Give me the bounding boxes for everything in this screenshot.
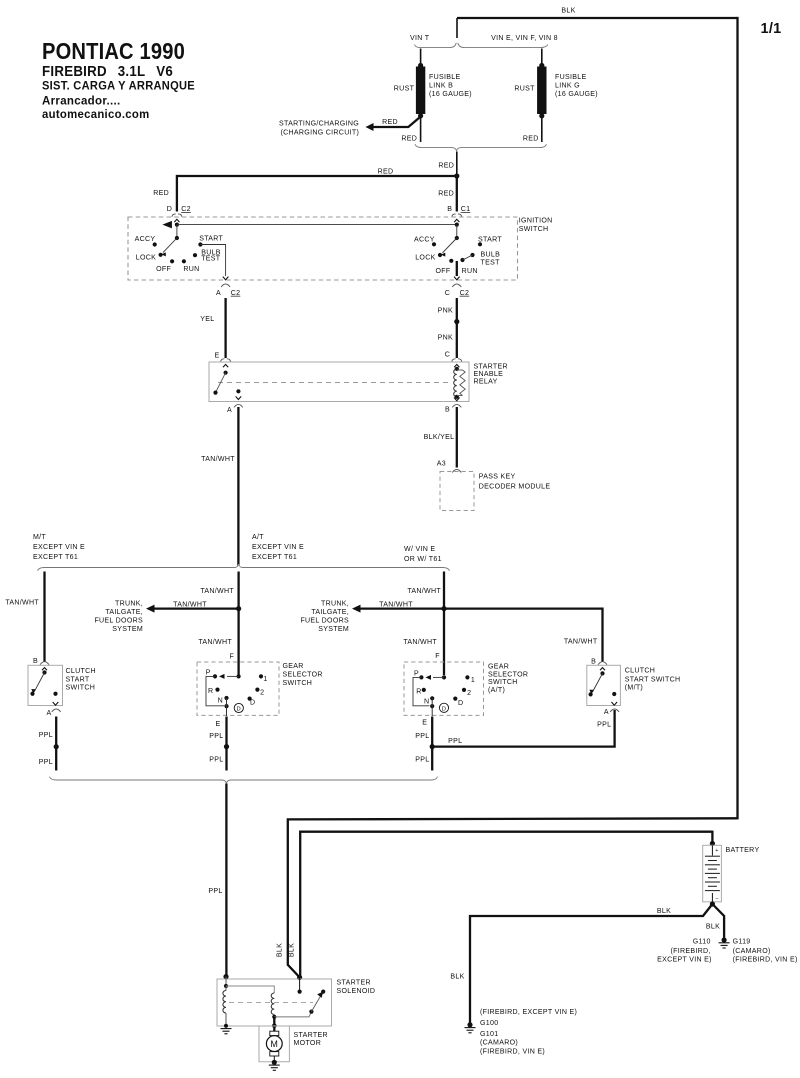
node left ACCY <box>153 242 157 246</box>
node G100 ground <box>467 1022 472 1027</box>
svg-text:(M/T): (M/T) <box>625 685 643 692</box>
wire BLK inside solenoid <box>299 978 301 992</box>
wire solenoid coil1 to ground <box>225 1013 227 1026</box>
svg-text:2: 2 <box>467 690 471 697</box>
wire to trunk system middle <box>150 607 239 609</box>
wire PNK <box>456 298 458 358</box>
node bottom of fusible link G <box>539 113 544 118</box>
node right gear common <box>442 675 446 679</box>
svg-text:GEAR: GEAR <box>488 664 509 671</box>
svg-text:LOCK: LOCK <box>415 254 435 261</box>
wire left START output <box>200 245 225 277</box>
svg-text:F: F <box>229 654 234 661</box>
connector mark at A C2 exit <box>221 284 230 287</box>
svg-text:RUN: RUN <box>183 266 199 273</box>
svg-text:SOLENOID: SOLENOID <box>337 988 376 995</box>
svg-text:RED: RED <box>153 190 169 197</box>
solenoid lever <box>311 997 320 1012</box>
svg-text:START: START <box>199 235 223 242</box>
svg-text:TAN/WHT: TAN/WHT <box>173 601 207 608</box>
ground symbol motor <box>269 1064 280 1066</box>
node solenoid pivot <box>309 1010 313 1014</box>
svg-text:FUEL DOORS: FUEL DOORS <box>300 618 349 625</box>
wire ignition bus to right switch <box>177 224 457 226</box>
svg-text:RED: RED <box>438 190 454 197</box>
starter solenoid box <box>217 979 332 1026</box>
svg-text:PPL: PPL <box>39 732 53 739</box>
gear selector switch dashed box middle <box>197 662 279 715</box>
svg-text:EXCEPT T61: EXCEPT T61 <box>33 554 78 561</box>
svg-text:TAN/WHT: TAN/WHT <box>198 639 232 646</box>
circled D right <box>439 703 448 712</box>
right clutch lever <box>592 673 602 692</box>
svg-text:Arrancador....: Arrancador.... <box>42 94 121 107</box>
svg-text:TRUNK,: TRUNK, <box>321 601 349 608</box>
wire solenoid pull-in feed <box>225 977 227 986</box>
svg-text:automecanico.com: automecanico.com <box>42 108 150 121</box>
svg-text:(16 GAUGE): (16 GAUGE) <box>555 91 598 98</box>
ground symbol G119 <box>719 942 730 944</box>
svg-text:SWITCH: SWITCH <box>519 226 549 233</box>
wire to charging circuit <box>373 117 420 127</box>
svg-text:RED: RED <box>438 162 454 169</box>
svg-text:FUSIBLE: FUSIBLE <box>555 74 586 81</box>
svg-text:(CHARGING CIRCUIT): (CHARGING CIRCUIT) <box>280 129 359 136</box>
svg-text:D: D <box>458 700 463 707</box>
svg-text:B: B <box>33 658 38 665</box>
wire RED horizontal <box>177 175 457 177</box>
wire right junction to clutch M/T <box>444 609 603 662</box>
svg-text:N: N <box>424 699 429 706</box>
svg-text:G101: G101 <box>480 1031 498 1038</box>
svg-text:FUSIBLE: FUSIBLE <box>429 74 460 81</box>
ground symbol solenoid <box>221 1028 232 1030</box>
svg-text:TAILGATE,: TAILGATE, <box>105 609 143 616</box>
wire BLK/YEL <box>456 407 458 468</box>
right ignition lever <box>443 238 457 253</box>
svg-text:TEST: TEST <box>481 260 501 267</box>
svg-text:BATTERY: BATTERY <box>726 847 760 854</box>
wire solenoid contact link <box>274 1012 311 1017</box>
svg-text:OFF: OFF <box>156 266 171 273</box>
svg-text:BLK: BLK <box>657 908 671 915</box>
node middle 1 <box>259 674 263 678</box>
fusible link G body <box>538 67 546 114</box>
node solenoid coil2 bottom <box>272 1015 276 1019</box>
svg-text:B: B <box>591 658 596 665</box>
svg-text:STARTING/CHARGING: STARTING/CHARGING <box>279 121 359 128</box>
svg-text:RED: RED <box>523 136 539 143</box>
svg-text:M/T: M/T <box>33 534 46 541</box>
svg-text:−: − <box>715 896 719 902</box>
svg-text:D: D <box>442 706 447 712</box>
svg-text:TAN/WHT: TAN/WHT <box>564 639 598 646</box>
node right clutch top <box>600 671 604 675</box>
node left OFF <box>170 259 174 263</box>
wire below fusible link B <box>420 117 422 142</box>
right gear bracket <box>413 677 430 705</box>
wire RED down to ignition D <box>176 175 178 212</box>
svg-text:G110: G110 <box>693 939 711 946</box>
battery box <box>703 845 722 902</box>
right clutch start switch box <box>587 665 621 705</box>
svg-text:SWITCH: SWITCH <box>66 685 96 692</box>
svg-text:P: P <box>414 670 419 677</box>
left clutch lever <box>34 673 44 692</box>
arrowhead relay output <box>236 396 242 399</box>
svg-text:RUST: RUST <box>514 85 535 92</box>
svg-text:RED: RED <box>382 119 398 126</box>
node left LOCK <box>159 253 163 257</box>
wire left pivot link <box>176 225 178 238</box>
starter enable relay box <box>209 362 469 402</box>
svg-text:RELAY: RELAY <box>474 379 498 386</box>
svg-text:1: 1 <box>471 677 475 684</box>
svg-text:PONTIAC 1990: PONTIAC 1990 <box>42 38 185 64</box>
svg-text:E: E <box>214 353 219 360</box>
node middle R <box>215 688 219 692</box>
svg-text:FIREBIRD 3.1L V6: FIREBIRD 3.1L V6 <box>42 63 173 80</box>
node PNK splice <box>454 319 459 324</box>
ignition switch dashed box <box>128 217 518 280</box>
node solenoid coil1 top <box>224 984 228 988</box>
svg-text:F: F <box>435 653 440 660</box>
svg-text:TAN/WHT: TAN/WHT <box>201 456 235 463</box>
distribution brace <box>38 564 450 571</box>
svg-text:STARTER: STARTER <box>294 1032 328 1039</box>
wire right ignition output <box>456 261 458 276</box>
svg-text:DECODER MODULE: DECODER MODULE <box>479 484 551 491</box>
wire solenoid to motor <box>273 1017 275 1031</box>
right RUN-BULB jumper <box>463 255 473 260</box>
node solenoid BLK contact <box>298 990 302 994</box>
node G119 ground <box>722 937 727 942</box>
svg-text:PNK: PNK <box>438 307 453 314</box>
wire brace to RED junction <box>456 152 458 177</box>
svg-text:FUEL DOORS: FUEL DOORS <box>94 618 143 625</box>
node right OFF <box>449 259 453 263</box>
svg-text:G100: G100 <box>480 1020 498 1027</box>
svg-text:C2: C2 <box>460 290 470 297</box>
brace merging RED wires <box>415 144 547 151</box>
svg-text:MOTOR: MOTOR <box>294 1040 322 1047</box>
node right clutch output <box>612 692 616 696</box>
node right clutch lower <box>589 692 593 696</box>
svg-text:2: 2 <box>260 690 264 697</box>
brace under VIN E VIN F VIN 8 <box>458 43 548 48</box>
svg-text:BLK: BLK <box>276 943 283 957</box>
wire A/T branch drop <box>237 572 239 676</box>
arrowhead left output down <box>223 277 229 280</box>
svg-text:(FIREBIRD,: (FIREBIRD, <box>670 948 710 955</box>
wire left PPL <box>55 717 57 771</box>
pass key decoder module dashed box <box>440 472 474 511</box>
left clutch start switch box <box>28 665 63 705</box>
svg-text:LINK G: LINK G <box>555 83 580 90</box>
connector mark right clutch A <box>610 709 619 712</box>
node motor ground <box>272 1060 277 1065</box>
wire below fusible link G <box>541 117 543 142</box>
connector mark left clutch B <box>40 662 49 665</box>
svg-text:C1: C1 <box>461 206 471 213</box>
svg-text:IGNITION: IGNITION <box>519 218 553 225</box>
svg-text:START: START <box>478 236 502 243</box>
arrowhead relay coil exit <box>454 398 460 401</box>
svg-text:PPL: PPL <box>448 738 462 745</box>
svg-text:A: A <box>216 290 221 297</box>
svg-text:SWITCH: SWITCH <box>283 680 313 687</box>
node solenoid coil1 bottom <box>224 1024 228 1028</box>
svg-text:SWITCH: SWITCH <box>488 679 518 686</box>
svg-text:PPL: PPL <box>597 722 611 729</box>
svg-text:BULB: BULB <box>481 251 501 258</box>
svg-text:PPL: PPL <box>209 757 223 764</box>
wire YEL <box>224 298 226 358</box>
node solenoid contact <box>321 990 325 994</box>
svg-text:(A/T): (A/T) <box>488 687 505 694</box>
node right START <box>478 242 482 246</box>
node relay switch common <box>224 371 228 375</box>
motor circle <box>266 1036 282 1052</box>
connector mark right clutch B <box>598 662 607 665</box>
svg-text:R: R <box>416 688 421 695</box>
svg-text:TAN/WHT: TAN/WHT <box>5 599 39 606</box>
svg-text:BLK: BLK <box>289 943 296 957</box>
wire BLK from top right <box>288 818 738 977</box>
svg-text:SELECTOR: SELECTOR <box>488 671 528 678</box>
svg-text:RED: RED <box>401 136 417 143</box>
wire BLK battery to G119 <box>712 904 724 938</box>
svg-text:1/1: 1/1 <box>760 21 781 37</box>
wire middle gear output inside <box>226 698 228 716</box>
node relay output contact <box>236 389 240 393</box>
connector mark at B C1 <box>452 214 456 217</box>
svg-text:CLUTCH: CLUTCH <box>66 668 96 675</box>
svg-text:PNK: PNK <box>438 335 453 342</box>
node left ignition feed <box>175 223 179 227</box>
svg-text:YEL: YEL <box>200 316 214 323</box>
motor terminal top <box>270 1031 279 1035</box>
wire RED down to ignition B <box>456 176 458 212</box>
wire to fusible link G <box>541 49 543 66</box>
node right BULB TEST <box>470 253 474 257</box>
node top of fusible link G <box>539 63 544 68</box>
svg-text:(FIREBIRD, VIN E): (FIREBIRD, VIN E) <box>480 1049 545 1056</box>
svg-text:RUST: RUST <box>394 85 415 92</box>
svg-text:BLK: BLK <box>450 974 464 981</box>
svg-text:(FIREBIRD, VIN E): (FIREBIRD, VIN E) <box>733 957 798 964</box>
connector mark at relay A exit <box>234 404 243 407</box>
svg-text:TAILGATE,: TAILGATE, <box>311 609 349 616</box>
svg-text:RED: RED <box>378 168 394 175</box>
svg-text:CLUTCH: CLUTCH <box>625 668 655 675</box>
node battery positive <box>710 841 715 846</box>
node RED junction <box>454 173 459 178</box>
arrowhead to charging circuit <box>366 123 374 131</box>
wire TAN/WHT main drop <box>237 407 239 566</box>
connector mark at A3 <box>452 470 461 473</box>
svg-text:BLK: BLK <box>561 8 575 15</box>
svg-text:W/ VIN E: W/ VIN E <box>404 546 435 553</box>
node left BULB TEST <box>193 253 197 257</box>
battery cells <box>711 845 713 855</box>
fusible link B body <box>416 67 424 114</box>
node middle gear common <box>237 674 241 678</box>
node top of fusible link B <box>418 63 423 68</box>
arrowhead into right clutch <box>600 668 605 671</box>
node right PPL splice <box>430 744 435 749</box>
wire W/VIN E branch drop <box>443 572 445 676</box>
wire BLK stub down to VIN braces <box>456 18 458 38</box>
svg-text:TAN/WHT: TAN/WHT <box>407 588 441 595</box>
node middle P <box>213 674 217 678</box>
svg-text:A: A <box>46 710 51 717</box>
svg-text:C: C <box>445 352 450 359</box>
arrowhead right clutch out <box>611 702 617 705</box>
relay dashed centerline <box>218 382 452 384</box>
node solenoid output <box>272 1024 277 1029</box>
svg-text:ACCY: ACCY <box>135 236 156 243</box>
node right P <box>419 675 423 679</box>
arrowhead trunk right <box>352 605 361 613</box>
wire right pivot link <box>456 225 458 238</box>
arrowhead ignition bus left <box>162 221 172 229</box>
wire BLK battery to solenoid <box>300 832 712 976</box>
node battery negative <box>710 901 715 906</box>
gear selector switch dashed box right <box>404 662 484 715</box>
svg-text:TAN/WHT: TAN/WHT <box>403 639 437 646</box>
svg-text:A3: A3 <box>437 461 446 468</box>
svg-text:START: START <box>66 676 90 683</box>
node right R <box>422 688 426 692</box>
node middle N <box>224 696 228 700</box>
node left RUN <box>182 259 186 263</box>
arrowhead left clutch out <box>53 702 59 705</box>
svg-text:(CAMARO): (CAMARO) <box>480 1040 518 1047</box>
svg-text:(CAMARO): (CAMARO) <box>733 948 771 955</box>
svg-text:PASS KEY: PASS KEY <box>479 473 516 480</box>
svg-text:STARTER: STARTER <box>474 363 508 370</box>
wire motor to ground <box>273 1056 275 1062</box>
svg-text:PPL: PPL <box>208 888 222 895</box>
svg-text:SELECTOR: SELECTOR <box>283 672 323 679</box>
svg-text:BLK/YEL: BLK/YEL <box>424 434 455 441</box>
node right 2 <box>462 688 466 692</box>
svg-text:(FIREBIRD, EXCEPT VIN E): (FIREBIRD, EXCEPT VIN E) <box>480 1009 577 1016</box>
svg-text:ENABLE: ENABLE <box>474 371 504 378</box>
node left clutch top <box>42 670 46 674</box>
svg-text:OFF: OFF <box>436 268 451 275</box>
svg-text:+: + <box>715 848 719 854</box>
svg-text:P: P <box>206 670 211 677</box>
left ignition lever <box>163 238 177 253</box>
svg-text:C: C <box>445 290 450 297</box>
svg-text:A/T: A/T <box>252 534 264 541</box>
middle gear bracket <box>206 676 224 705</box>
svg-text:A: A <box>227 407 232 414</box>
svg-text:TRUNK,: TRUNK, <box>115 601 143 608</box>
svg-text:PPL: PPL <box>39 759 53 766</box>
solenoid coil 2 <box>226 986 274 993</box>
svg-text:PPL: PPL <box>415 757 429 764</box>
svg-text:E: E <box>422 719 427 726</box>
svg-text:VIN E, VIN F, VIN 8: VIN E, VIN F, VIN 8 <box>491 35 558 42</box>
svg-text:B: B <box>447 206 452 213</box>
svg-text:1: 1 <box>263 676 267 683</box>
arrowhead trunk middle <box>146 605 155 613</box>
relay lever <box>216 373 225 391</box>
wire right PPL down <box>431 717 433 771</box>
node right trunk junction <box>441 606 446 611</box>
svg-text:EXCEPT VIN E: EXCEPT VIN E <box>252 544 304 551</box>
svg-text:OR W/ T61: OR W/ T61 <box>404 556 442 563</box>
brace under VIN T <box>415 43 457 48</box>
svg-text:E: E <box>215 721 220 728</box>
svg-text:PPL: PPL <box>415 733 429 740</box>
wire right gear output inside <box>431 698 433 716</box>
svg-text:N: N <box>218 697 223 704</box>
solenoid dashed centerline <box>229 1002 313 1004</box>
svg-text:ACCY: ACCY <box>414 236 435 243</box>
svg-text:START SWITCH: START SWITCH <box>625 676 681 683</box>
svg-text:SIST. CARGA Y ARRANQUE: SIST. CARGA Y ARRANQUE <box>42 80 195 93</box>
svg-text:PPL: PPL <box>209 733 223 740</box>
wire BLK right vertical (to battery area) <box>736 17 738 820</box>
svg-text:GEAR: GEAR <box>283 663 304 670</box>
node bottom of fusible link B <box>418 113 423 118</box>
wire BLK battery to G100 run <box>470 904 712 1023</box>
connector mark at relay B exit <box>452 404 461 407</box>
node right output contact <box>430 704 434 708</box>
ground symbol G100 <box>465 1027 476 1029</box>
connector mark at D C2 <box>172 214 176 217</box>
svg-text:D: D <box>250 700 255 707</box>
svg-text:LOCK: LOCK <box>136 255 156 262</box>
arrowhead into left clutch <box>42 668 47 671</box>
wire to trunk system right <box>356 607 444 609</box>
svg-text:(16 GAUGE): (16 GAUGE) <box>429 91 472 98</box>
node right pivot <box>455 236 459 240</box>
wire battery positive stub <box>711 831 713 844</box>
svg-text:B: B <box>445 407 450 414</box>
svg-text:R: R <box>208 688 213 695</box>
node PPL at solenoid <box>223 974 228 979</box>
node relay lever end <box>213 391 217 395</box>
svg-text:M: M <box>270 1039 278 1049</box>
starter motor enclosure <box>259 1026 289 1062</box>
node A/T trunk junction <box>236 606 241 611</box>
svg-text:TEST: TEST <box>201 256 221 263</box>
node right N <box>430 696 434 700</box>
svg-text:VIN T: VIN T <box>410 35 430 42</box>
circled D middle <box>234 703 243 712</box>
solenoid coil 1 <box>223 991 226 1014</box>
svg-text:D: D <box>237 707 242 713</box>
svg-text:C2: C2 <box>231 290 241 297</box>
svg-text:SYSTEM: SYSTEM <box>112 626 143 633</box>
svg-text:G119: G119 <box>733 939 751 946</box>
node BLK at solenoid <box>297 975 302 980</box>
node left clutch lower <box>30 692 34 696</box>
relay coil resistor <box>457 369 463 371</box>
wire PPL from clutch M/T <box>432 710 614 747</box>
node right D <box>453 697 457 701</box>
node middle PPL splice <box>224 744 229 749</box>
wire M/T branch drop <box>43 572 45 662</box>
node right 1 <box>465 675 469 679</box>
wire BLK top horizontal <box>457 17 738 19</box>
svg-text:EXCEPT VIN E: EXCEPT VIN E <box>33 544 85 551</box>
